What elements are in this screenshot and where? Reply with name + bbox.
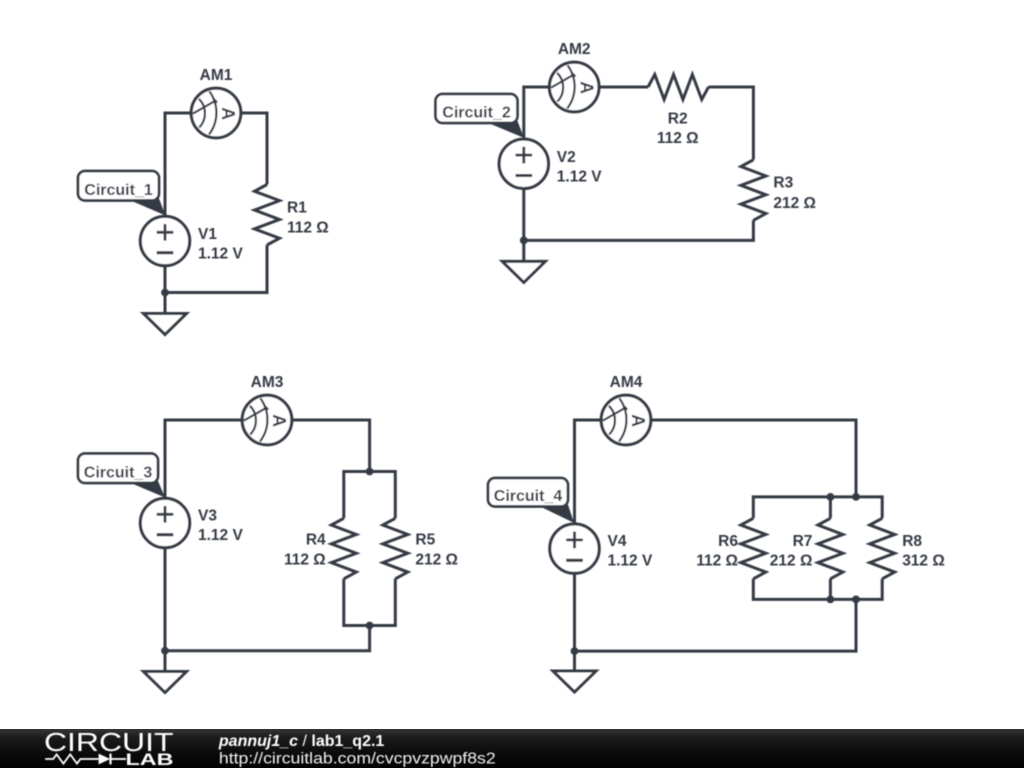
svg-text:Circuit_2: Circuit_2 [442,105,511,122]
svg-text:112 Ω: 112 Ω [287,220,329,237]
svg-text:pannuj1_c / lab1_q2.1: pannuj1_c / lab1_q2.1 [218,733,385,750]
svg-text:V2: V2 [557,149,576,166]
svg-text:R6: R6 [718,533,738,550]
svg-text:R7: R7 [793,533,813,550]
junction C4 gnd node [571,647,579,655]
svg-text:A: A [218,107,238,120]
ground C4 [553,671,596,692]
callout Circuit_4 tail [536,505,574,523]
wire C3 ground lead [164,651,167,672]
svg-text:V3: V3 [198,508,217,525]
wire C1 ground lead [164,293,167,314]
junction C3 bottom node [366,622,374,630]
wire C4 R7 bottom lead [829,579,832,600]
callout Circuit_3 tail [126,481,165,498]
svg-text:AM3: AM3 [251,374,284,391]
svg-text:Circuit_3: Circuit_3 [84,465,153,482]
voltage source V1 [140,216,189,265]
ammeter AM2 [549,62,599,112]
logo squiggle resistor-diode [45,754,126,765]
svg-text:AM4: AM4 [610,374,643,391]
svg-text:112 Ω: 112 Ω [696,552,738,569]
wire C2 bottom [524,220,754,240]
circuit 4 group [488,374,945,692]
resistor R5 zigzag [383,518,408,579]
resistor R2 zigzag [648,75,709,100]
footer bar [0,729,1024,768]
svg-text:V4: V4 [608,533,627,550]
voltage source V4 [550,524,599,573]
junction C3 top node [366,468,374,476]
resistor R3 zigzag [741,160,766,221]
wire C3 feed-bottom [165,626,370,651]
callout Circuit_2 tail [484,121,525,138]
svg-text:A: A [576,81,596,94]
svg-text:1.12 V: 1.12 V [608,553,653,570]
resistor R7 zigzag [818,518,843,579]
wire C3 left-top-feed [165,420,370,651]
svg-text:312 Ω: 312 Ω [902,552,945,569]
svg-text:A: A [269,414,289,427]
voltage source V3 [140,498,189,547]
callout Circuit_1 tail [126,199,166,216]
ammeter AM1 [191,88,241,138]
wire C4 bottom rail [753,579,882,600]
wire C2 ground lead [522,240,525,261]
svg-text:R5: R5 [415,532,435,549]
junction C2 node [520,237,528,245]
junction C4 bottom node R7 [827,596,835,604]
svg-text:1.12 V: 1.12 V [198,527,243,544]
svg-text:212 Ω: 212 Ω [770,552,813,569]
svg-text:Circuit_1: Circuit_1 [84,182,153,199]
svg-text:R4: R4 [306,532,326,549]
svg-text:R2: R2 [668,110,688,127]
voltage source V2 [499,139,548,188]
resistor R1 zigzag [255,185,280,246]
svg-text:V1: V1 [198,226,217,243]
svg-text:LAB: LAB [126,750,174,768]
circuit 1 group [78,67,329,334]
resistor R6 zigzag [741,518,766,579]
callout Circuit_1 box [78,171,159,201]
svg-text:112 Ω: 112 Ω [284,551,326,568]
wire C1 bottom [165,245,267,293]
svg-text:212 Ω: 212 Ω [415,551,458,568]
circuit 2 group [436,41,817,282]
svg-text:http://circuitlab.com/cvcpvzpw: http://circuitlab.com/cvcpvzpwpf8s2 [219,750,496,767]
ground C2 [502,261,545,282]
wire C1 left-top-right [165,113,267,293]
resistor R8 zigzag [870,518,895,579]
svg-text:Circuit_4: Circuit_4 [494,488,563,505]
callout Circuit_3 box [78,454,158,484]
junction C1 node [161,289,169,297]
ammeter AM3 [242,395,292,445]
svg-text:A: A [628,414,648,427]
wire C4 ground lead [573,651,576,671]
wire C4 left-top-right [575,420,857,651]
junction C4 bottom node feed [852,596,860,604]
junction C3 gnd node [161,647,169,655]
svg-text:1.12 V: 1.12 V [198,246,243,263]
wire C2 left-top [524,87,648,240]
ground C1 [144,314,187,335]
callout Circuit_2 box [436,94,518,123]
wire C4 right-bottom [575,599,857,651]
wire C4 top rail [753,497,882,518]
wire C3 top rail [344,472,396,519]
ammeter AM4 [601,395,651,445]
circuit 3 group [78,374,458,692]
svg-text:R1: R1 [287,199,307,216]
junction C4 top node R7 [827,493,835,501]
svg-text:AM1: AM1 [200,67,233,84]
ground C3 [144,672,187,693]
svg-text:R3: R3 [773,175,793,192]
resistor R4 zigzag [331,518,356,579]
junction C4 top node feed [852,493,860,501]
svg-text:212 Ω: 212 Ω [773,195,816,212]
svg-text:112 Ω: 112 Ω [657,130,699,147]
wire C2 top-right corner [709,87,754,160]
svg-text:AM2: AM2 [558,41,591,58]
wire C4 R7 top lead [829,497,832,518]
svg-text:1.12 V: 1.12 V [557,169,602,186]
wire C3 bottom rail [344,579,396,626]
svg-text:R8: R8 [902,533,922,550]
callout Circuit_4 box [488,478,568,507]
